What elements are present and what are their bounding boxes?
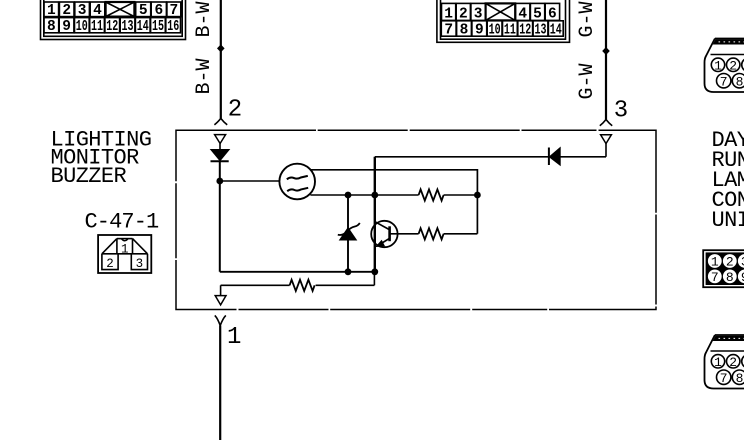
svg-text:13: 13 [535,23,547,39]
wire G-W vertical [605,0,607,120]
wire top-right to diode [375,156,549,158]
wire fork below box [215,315,226,325]
zener diode ZD1 [338,195,360,272]
resistor R1 [419,189,444,200]
terminal 1 (open triangle) [215,296,226,305]
svg-text:11: 11 [504,23,516,39]
connector (14-pin joint connector, pins 1-14) [437,0,570,42]
svg-text:7: 7 [711,270,719,285]
connector (daytime running lamp control unit, round 12-pin, top) [705,39,744,93]
wire buzzer top to right bus [311,170,478,234]
wire fork 2 [214,118,227,124]
wire to buzzer [220,180,280,182]
svg-text:16: 16 [167,19,179,35]
svg-text:8: 8 [736,371,744,386]
svg-text:9: 9 [62,19,71,35]
svg-text:8: 8 [736,74,744,89]
svg-text:7: 7 [720,371,728,386]
connector (daytime running lamp control unit, 12-pin, middle) [703,250,744,287]
svg-text:14: 14 [137,19,149,35]
transistor Q1 [371,221,418,247]
svg-text:7: 7 [720,74,728,89]
connector J/C (16-pin joint connector, pins 1-16) [41,0,186,40]
svg-text:8: 8 [726,270,734,285]
svg-text:1: 1 [444,6,453,22]
svg-text:1: 1 [121,242,129,256]
label LIGHTING MONITOR BUZZER [51,127,152,189]
svg-text:2: 2 [726,255,734,270]
connector C-47-1 icon [98,235,151,273]
resistor R2 [419,228,444,239]
diode D2 [549,144,606,165]
node R1-right [474,192,481,199]
svg-text:6: 6 [154,3,163,19]
svg-text:2: 2 [62,3,71,19]
svg-text:5: 5 [533,6,542,22]
svg-text:4: 4 [518,6,527,22]
svg-text:13: 13 [122,19,134,35]
node bus-mid [371,192,378,199]
svg-text:10: 10 [489,23,501,39]
svg-text:14: 14 [550,23,562,39]
svg-text:1: 1 [47,3,56,19]
svg-text:9: 9 [475,23,484,39]
wire fork 3 [600,120,612,126]
svg-text:C-47-1: C-47-1 [85,209,160,234]
svg-text:7: 7 [444,23,453,39]
diode D1 [211,144,229,272]
wire 1 down [219,326,221,440]
svg-text:2: 2 [106,257,114,271]
label DAYTIME RUNNING LAMP CONTROL UNIT [712,128,744,233]
svg-text:3: 3 [78,3,87,19]
svg-text:8: 8 [460,23,469,39]
svg-text:12: 12 [519,23,531,39]
wire buzzer bottom / base line [310,194,418,196]
splice dot on B-W wire [217,44,225,52]
svg-text:2: 2 [729,58,737,73]
connector (daytime running lamp control unit, round 12-pin, bottom) [705,335,744,389]
svg-text:3: 3 [614,97,628,124]
svg-text:BUZZER: BUZZER [51,164,127,189]
terminal 3 (open triangle) [601,135,612,144]
lighting monitor buzzer unit outline box [176,130,656,309]
bus vertical (collector/emitter rail) [374,157,376,272]
svg-text:3: 3 [474,6,483,22]
resistor R3 with terminal 1 path [221,272,375,296]
svg-text:8: 8 [47,19,56,35]
svg-text:2: 2 [228,96,242,123]
svg-text:7: 7 [169,3,178,19]
svg-text:1: 1 [227,324,241,351]
svg-text:12: 12 [106,19,118,35]
buzzer B1 [279,164,315,200]
node bus-bottom [371,268,378,275]
wire B-W vertical [220,0,222,118]
svg-text:1: 1 [714,58,722,73]
svg-text:5: 5 [139,3,148,19]
svg-text:UNIT: UNIT [712,208,744,233]
svg-text:G-W: G-W [576,63,599,99]
svg-text:6: 6 [548,6,557,22]
terminal 2 (open triangle) [215,135,226,144]
svg-text:15: 15 [152,19,164,35]
svg-text:1: 1 [711,255,719,270]
node zener-top [345,192,352,199]
svg-text:B-W: B-W [193,1,216,37]
node buzzer-left junction [216,178,223,185]
svg-text:2: 2 [729,355,737,370]
svg-text:B-W: B-W [193,58,216,94]
svg-text:G-W: G-W [576,1,599,37]
svg-text:1: 1 [714,355,722,370]
svg-text:4: 4 [93,3,102,19]
svg-text:3: 3 [136,257,144,271]
node zener-bottom [345,268,352,275]
svg-text:11: 11 [91,19,103,35]
svg-text:10: 10 [76,19,88,35]
splice dot on G-W wire [602,47,610,55]
svg-text:2: 2 [459,6,468,22]
wire bottom return [220,271,375,273]
